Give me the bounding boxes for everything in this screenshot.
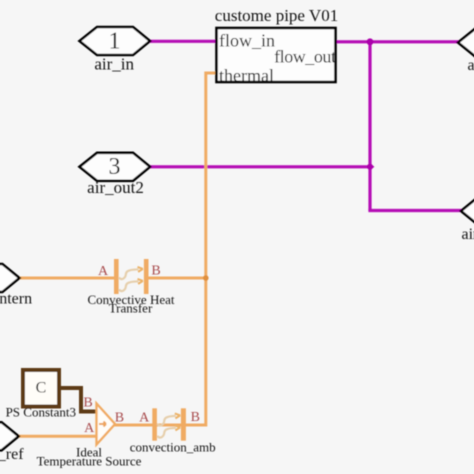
svg-text:air_in: air_in <box>94 54 134 73</box>
wire flow_out (magenta, pipe block to air_out hexagon) <box>336 40 459 43</box>
svg-text:A: A <box>98 264 109 279</box>
component convection_amb <box>130 408 216 454</box>
junction dot top <box>367 38 374 45</box>
svg-text:flow_in: flow_in <box>219 31 275 51</box>
svg-text:B: B <box>115 410 124 425</box>
wire air_out2 branch (magenta, hexagon3 to trunk) <box>150 165 370 168</box>
svg-text:Temperature Source: Temperature Source <box>37 453 142 468</box>
port hexagon 3 air_out2 <box>80 153 151 197</box>
wire T_ref to temperature source A (orange) <box>19 435 97 438</box>
wire flow_in (magenta, hexagon1 to pipe block) <box>150 40 217 43</box>
junction dot orange <box>203 275 209 281</box>
wire thermal trunk (orange vertical) <box>153 72 217 426</box>
port hexagon air_out (right edge, partial) <box>458 29 474 74</box>
junction dot middle <box>367 164 374 170</box>
svg-text:air_out: air_out <box>468 57 474 74</box>
svg-text:3: 3 <box>109 154 121 180</box>
svg-text:air_out1: air_out1 <box>462 226 474 243</box>
svg-text:B: B <box>151 264 160 279</box>
svg-text:air_out2: air_out2 <box>87 178 144 197</box>
port hexagon 1 air_in <box>80 27 151 73</box>
wire vertical branch (magenta trunk) <box>368 42 371 211</box>
svg-text:Transfer: Transfer <box>109 301 153 316</box>
svg-text:T_ref: T_ref <box>0 446 24 463</box>
svg-text:1: 1 <box>109 28 121 54</box>
wire T_intern to Convective A (orange) <box>19 277 114 280</box>
wire convection_amb B to trunk (orange) <box>185 424 206 427</box>
wire Convective B to trunk (orange) <box>148 277 206 280</box>
svg-text:A: A <box>139 411 150 426</box>
svg-text:custome pipe V01: custome pipe V01 <box>215 6 338 25</box>
wire bottom branch (magenta, trunk to bottom-right hexagon) <box>368 209 462 212</box>
component Convective Heat Transfer <box>88 259 175 316</box>
port hexagon T_intern (left edge, partial) <box>0 264 32 308</box>
svg-text:C: C <box>36 379 47 396</box>
svg-text:PS Constant3: PS Constant3 <box>6 405 76 420</box>
svg-text:flow_out: flow_out <box>274 47 336 67</box>
wire temp source B to convection_amb A (orange) <box>114 424 153 427</box>
component Ideal Temperature Source <box>37 396 142 469</box>
port hexagon air_out1 (bottom right edge, partial) <box>461 197 474 243</box>
svg-text:A: A <box>84 421 95 436</box>
port hexagon T_ref (left edge, partial) <box>0 422 24 463</box>
component PS Constant3 <box>6 370 76 420</box>
svg-text:B: B <box>83 396 92 411</box>
svg-text:convection_amb: convection_amb <box>130 439 216 454</box>
svg-text:thermal: thermal <box>219 66 274 86</box>
block custome pipe V01 <box>215 6 338 86</box>
svg-text:T_intern: T_intern <box>0 291 32 308</box>
svg-text:B: B <box>191 410 200 425</box>
wire PS Constant3 to temp source S (dark brown) <box>59 388 97 412</box>
